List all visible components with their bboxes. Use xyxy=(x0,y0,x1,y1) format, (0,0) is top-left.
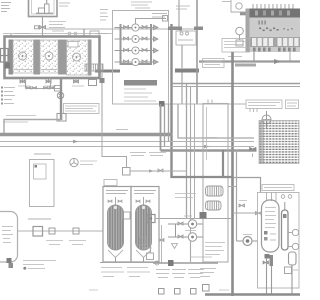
dosing box 7000 xyxy=(140,238,152,249)
chemical feed line xyxy=(18,230,104,232)
instrument PI xyxy=(236,27,244,40)
distribution line 2 xyxy=(0,145,254,148)
gas conditioning box xyxy=(176,31,196,45)
soporte text xyxy=(175,194,196,198)
reactor feed pipe xyxy=(233,178,261,193)
header tag dark xyxy=(235,64,256,67)
inlet box left xyxy=(1,49,9,63)
degasser unit box xyxy=(203,100,228,263)
naoh tag 1 xyxy=(130,153,146,156)
column bottom header xyxy=(100,262,160,264)
return line left xyxy=(4,120,61,135)
boiler downpipe 2 xyxy=(289,52,291,62)
crossover xyxy=(228,186,237,188)
naoh tag 2 xyxy=(149,153,166,156)
main riser east xyxy=(170,24,172,178)
main recirculation band xyxy=(0,133,173,136)
anilina dot xyxy=(23,267,26,270)
tank right wall xyxy=(88,40,92,76)
corner drop d xyxy=(194,104,196,218)
riser elbow top xyxy=(168,27,182,31)
aux box 750 xyxy=(285,267,299,274)
top rail thin xyxy=(3,33,112,35)
boiler module row xyxy=(250,37,300,47)
skimmer box top xyxy=(90,31,99,36)
corner drop c xyxy=(178,104,254,138)
dosing pump row 4 xyxy=(115,58,159,65)
top fitting xyxy=(163,16,168,22)
suction header xyxy=(26,88,62,90)
reactor top fittings xyxy=(267,193,292,202)
dosing pump row 3 xyxy=(115,47,159,54)
reductor label 3 xyxy=(188,270,204,278)
right edge gauge 2 xyxy=(288,243,299,249)
condensate pump 1 xyxy=(168,220,203,228)
dosing notes xyxy=(124,89,156,101)
right edge gauge 1 xyxy=(288,229,299,235)
caldera label box xyxy=(222,39,250,53)
aux tank small xyxy=(289,252,297,295)
instrument box xyxy=(236,40,243,46)
steam header label box xyxy=(203,59,225,68)
drop pipe lower xyxy=(181,73,183,105)
control cabinet U1 xyxy=(29,0,58,17)
bottom collection header xyxy=(153,260,218,266)
sludge hopper dark xyxy=(5,63,11,69)
boiler left wall xyxy=(246,9,250,53)
riser pipe A xyxy=(25,78,27,89)
tag 2700 xyxy=(89,289,98,291)
digester title xyxy=(152,14,167,18)
transfer dark bar left xyxy=(95,70,120,73)
reactor tag box xyxy=(262,185,294,191)
burner tick row xyxy=(253,4,293,9)
valve pair A xyxy=(26,87,37,89)
condensate pump 2 xyxy=(168,233,203,241)
drop pipe center xyxy=(150,223,152,254)
distribution line 1 xyxy=(0,140,254,143)
tank cell 1 xyxy=(13,40,34,73)
measuring column B1 xyxy=(282,202,289,250)
condensate valve xyxy=(159,239,164,242)
tank divider 2 xyxy=(58,40,67,75)
transfer drop pipe xyxy=(101,73,103,125)
note list top-left xyxy=(1,3,11,12)
pump rail right xyxy=(150,24,152,65)
level gauge instrument xyxy=(262,111,271,129)
downcomer dark segment xyxy=(222,150,224,176)
hcl nacl label xyxy=(46,241,63,245)
riser pipe B xyxy=(50,78,52,89)
wire to soporte xyxy=(130,169,187,173)
makeup header thick xyxy=(161,147,257,157)
reactor bottom train xyxy=(263,254,273,295)
dosing feed drop xyxy=(102,125,127,168)
flow tag 7500 xyxy=(116,130,217,138)
tank cell 3 xyxy=(67,40,89,75)
mgc3 title xyxy=(34,153,51,155)
anilina note block xyxy=(23,261,56,269)
flow meter circle xyxy=(57,92,63,98)
parallel feed line xyxy=(236,150,238,241)
aerator grid bar xyxy=(85,64,103,71)
reactor frame xyxy=(258,193,300,289)
reductor label 1 xyxy=(156,270,170,278)
drop pipe xyxy=(181,45,183,68)
condensate riser xyxy=(161,225,163,263)
dosing label plate xyxy=(124,80,157,86)
cat tag box xyxy=(104,180,117,186)
cond funnel xyxy=(172,244,178,249)
pump suction tie xyxy=(175,224,177,237)
undertank tags xyxy=(18,85,84,87)
vendor emblem xyxy=(70,158,97,166)
degasser notes xyxy=(205,243,225,255)
drain valve C xyxy=(74,79,79,83)
wire cabinet to valve V1 xyxy=(42,17,44,36)
right small label box xyxy=(286,100,299,109)
burner tip row xyxy=(253,48,296,52)
exchanger coil 2 xyxy=(206,201,222,210)
corner drop b xyxy=(164,104,166,147)
boiler downpipe 1 xyxy=(253,52,255,62)
reactor vessel R1 xyxy=(262,200,280,252)
exchanger dash label xyxy=(259,21,294,32)
junction blob xyxy=(194,27,203,31)
ion exchanger 2 xyxy=(131,187,159,264)
sample box xyxy=(55,86,62,92)
rail bottom tie xyxy=(120,63,153,65)
main downcomer pipe xyxy=(60,78,62,119)
exchanger coil 1 xyxy=(206,186,224,196)
sample point 2 xyxy=(175,289,181,295)
evaporator label xyxy=(28,218,51,220)
feed header top xyxy=(136,19,167,28)
note rows left of digester xyxy=(100,10,108,21)
nh4 label xyxy=(69,241,86,245)
header notes above digester xyxy=(131,2,152,8)
junction box xyxy=(57,114,66,122)
label producto quimico xyxy=(49,22,66,32)
dosing pump row 2 xyxy=(115,35,159,42)
degasser caption xyxy=(200,269,216,277)
outlet tee dark xyxy=(100,78,105,83)
cabinet side note xyxy=(59,3,70,6)
tank notes xyxy=(2,227,13,243)
buffer tank T2 xyxy=(0,212,18,263)
corner drop a xyxy=(160,104,162,151)
can wash 2 label xyxy=(127,268,150,277)
header label xyxy=(191,256,212,258)
vent valve cma xyxy=(239,201,247,208)
tag 50-3 xyxy=(184,215,192,217)
inline filter 1 xyxy=(49,228,55,234)
legend text rows xyxy=(4,88,15,104)
injector box xyxy=(33,227,43,237)
bottom main header xyxy=(205,293,300,296)
mixing tee box xyxy=(123,168,131,176)
boiler feed riser xyxy=(231,52,234,296)
wire to digester box xyxy=(46,28,197,30)
interchange box xyxy=(123,212,131,219)
ion exchanger 1 xyxy=(103,187,131,264)
steam header xyxy=(199,59,300,64)
dosing pump row 1 xyxy=(115,24,159,31)
pump tag 250-1 xyxy=(185,230,196,232)
can wash 1 label xyxy=(101,268,124,277)
transfer pump box xyxy=(147,215,155,223)
mgc3 cabinet xyxy=(30,160,55,207)
skid bottom edge extension xyxy=(169,103,247,105)
valve V1 xyxy=(35,26,46,30)
polish line xyxy=(155,218,232,220)
tank left wall xyxy=(9,40,14,75)
riser top note xyxy=(176,6,190,9)
sample point 1 xyxy=(159,289,165,295)
inline filter 2 xyxy=(73,228,79,234)
dark header bar xyxy=(175,69,199,73)
reactor inlet valve xyxy=(233,212,262,215)
label box aguas residuales xyxy=(64,104,100,114)
vent ticks above tank xyxy=(15,32,108,35)
tank cell 2 xyxy=(40,40,58,73)
reductor label 2 xyxy=(172,270,186,278)
pump rail left xyxy=(120,24,122,65)
boiler unit body xyxy=(246,9,301,53)
valve pair B xyxy=(44,87,55,89)
short feed stub top xyxy=(178,0,180,29)
deaerator matrix block xyxy=(259,121,299,164)
blowdown box dark xyxy=(200,212,207,219)
transmitter TT top xyxy=(222,0,252,15)
drain sample box xyxy=(203,285,210,292)
outlet box under tank xyxy=(89,80,97,86)
tiny text over return line xyxy=(6,115,36,117)
twin transfer lines xyxy=(186,84,188,219)
digester skid box U2 xyxy=(113,11,169,105)
clarifier assembly outer frame xyxy=(5,37,100,79)
drain valve A xyxy=(20,79,25,83)
tag 700S xyxy=(219,289,229,291)
drain valve B xyxy=(46,79,51,83)
downcomer elbow xyxy=(171,176,233,178)
economizer label box xyxy=(246,100,282,112)
sample point 3 xyxy=(191,289,197,295)
drain box xyxy=(147,253,154,260)
tank bottom fitting xyxy=(7,258,14,268)
furnace dark block xyxy=(250,9,301,18)
feed pump PF xyxy=(237,237,258,246)
skid outlet marker xyxy=(159,101,165,107)
tank divider 1 xyxy=(34,40,41,75)
header east pair xyxy=(172,83,300,85)
pump tag 250 xyxy=(243,234,252,236)
steam header label xyxy=(228,56,242,58)
right boundary pipe xyxy=(196,0,198,104)
